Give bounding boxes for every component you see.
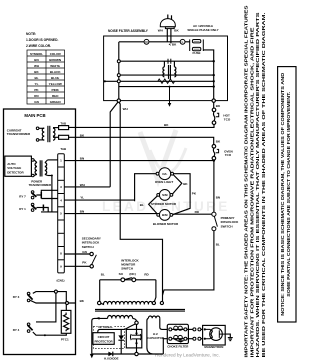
node L4 right (213, 80, 215, 82)
wire PT top to pin1 (48, 159, 58, 161)
magnetron tube (210, 328, 223, 341)
connector CN1 strip (58, 154, 65, 273)
svg-text:H.V.DIODE: H.V.DIODE (104, 356, 119, 360)
ground rail (92, 353, 164, 355)
svg-text:PTC1: PTC1 (61, 337, 69, 341)
wire rail up to choke bottom (163, 339, 167, 354)
wire fuse-side drop to transformer (119, 102, 163, 301)
svg-text:RY 7: RY 7 (19, 194, 26, 198)
node cap bottom (135, 342, 137, 344)
svg-text:SOME PARTIAL CONNECTIONS ARE S: SOME PARTIAL CONNECTIONS ARE SUBJECT TO … (286, 92, 291, 297)
main pcb box (4, 109, 76, 355)
svg-text:BLOWER MOTOR: BLOWER MOTOR (153, 222, 179, 226)
wire OVEN TCO to node (213, 159, 215, 162)
svg-text:DETECTOR: DETECTOR (7, 170, 24, 174)
svg-text:RED: RED (52, 94, 59, 98)
node pin1 bus junction (213, 159, 215, 161)
wire filament left down (147, 318, 153, 354)
blower motor B/M (157, 210, 173, 221)
optional dashed box (93, 327, 124, 349)
svg-text:SO: SO (119, 272, 124, 276)
fuse (190, 39, 204, 51)
svg-text:BE USED FOR THE CRITICAL COMPO: BE USED FOR THE CRITICAL COMPONENTS IN T… (261, 13, 266, 358)
secondary interlock switch (90, 252, 97, 268)
svg-text:BN: BN (216, 196, 220, 200)
circuit protector box (93, 333, 114, 345)
wire monitor left drop (99, 280, 101, 302)
pin numbers (60, 159, 62, 269)
wire monitor right drop (155, 280, 156, 301)
svg-text:YL: YL (35, 82, 39, 86)
svg-text:COLOR: COLOR (50, 52, 62, 56)
svg-text:NOISE FILTER ASSEMBLY: NOISE FILTER ASSEMBLY (108, 29, 149, 33)
node junction RY3 bottom (66, 302, 69, 305)
svg-text:WH: WH (80, 183, 85, 187)
wire PT bottom to bus (48, 175, 52, 177)
wire SM-BM left bracket (149, 196, 158, 214)
power plug (160, 15, 175, 44)
wire OL-SM right bracket (173, 175, 182, 194)
wire core ground stub with arrow (169, 87, 171, 104)
wire optional top rail (98, 329, 125, 332)
wire bus down to pin5 stub (51, 176, 53, 212)
svg-text:GN: GN (82, 250, 87, 254)
wire O/L right to bus (173, 174, 190, 215)
svg-text:SWITCH: SWITCH (82, 245, 94, 249)
wire L5 (119, 86, 214, 88)
auto voltage detector box (5, 156, 32, 176)
svg-text:TCO: TCO (225, 153, 232, 157)
terminal junctions on left vertical (117, 60, 120, 63)
PT terminals (32, 159, 35, 162)
thermostat HOT TCO (212, 108, 219, 124)
chassis ground arrow (90, 354, 94, 358)
oven light O/L (156, 168, 173, 180)
inductor bumps (158, 79, 175, 83)
svg-text:BL: BL (140, 203, 144, 207)
hv transformer core (95, 308, 185, 310)
current transformer CT (39, 126, 59, 142)
svg-text:TCO: TCO (224, 117, 231, 121)
note text (26, 32, 59, 48)
wire cap vertical (136, 325, 138, 336)
safety note vertical text (244, 5, 266, 357)
filament winding (148, 316, 159, 318)
wire pin5 line BN (64, 213, 157, 215)
node L3 right (213, 74, 215, 76)
node L4 left edge (104, 80, 106, 82)
wire RY3 to RY4 (36, 293, 56, 322)
wire fuse output (203, 50, 213, 61)
thermostat OVEN TCO (212, 145, 219, 161)
svg-text:WH: WH (123, 107, 128, 111)
svg-text:CHOKE FILTER: CHOKE FILTER (167, 344, 189, 348)
hv capacitor box (126, 329, 142, 348)
svg-text:BL: BL (216, 242, 220, 246)
magnetron terminals (204, 328, 206, 330)
svg-text:B/M: B/M (162, 213, 168, 217)
wire L4 with inductor (105, 80, 214, 82)
wire L3 (119, 74, 214, 76)
svg-text:WH: WH (34, 64, 39, 68)
bus right vertical to interlock (213, 161, 215, 213)
hv primary feed terminal (160, 301, 163, 304)
svg-text:FUSE: FUSE (192, 51, 200, 55)
svg-text:IMPORTANT SAFETY NOTE: THE SHA: IMPORTANT SAFETY NOTE: THE SHADED AREAS … (244, 5, 249, 357)
svg-text:BN: BN (80, 157, 84, 161)
svg-text:OPTIONAL: OPTIONAL (98, 325, 113, 329)
svg-text:SYMBOL: SYMBOL (30, 52, 43, 56)
wire pin4 line YL (64, 199, 134, 201)
TAB 1 (59, 126, 69, 130)
wire hv secondary left with arrow (92, 318, 108, 354)
svg-text:2.WIRE COLOR.: 2.WIRE COLOR. (26, 44, 51, 48)
svg-text:PINK: PINK (52, 88, 60, 92)
stirrer motor S/M (157, 190, 173, 201)
hv secondary winding (108, 315, 133, 318)
svg-text:GN: GN (34, 100, 39, 104)
svg-text:TAB: TAB (60, 122, 66, 126)
line filter transformer (163, 61, 176, 79)
hv primary coil-end terminal (152, 301, 155, 304)
CT left terminals (36, 127, 39, 130)
BK arrow annotation (169, 44, 171, 46)
svg-text:TAB: TAB (60, 147, 66, 151)
wire B/M right to interlock (173, 213, 212, 215)
terminal WH out (117, 99, 120, 102)
wire filament right to choke top (160, 318, 168, 329)
diode HV on rail (108, 352, 112, 357)
svg-text:IMPORTANT FOR PROTECTION FROM: IMPORTANT FOR PROTECTION FROM MICROWAVE … (249, 27, 254, 357)
thermistor PTC1 (61, 310, 71, 333)
svg-text:SINGLE PHASE ONLY: SINGLE PHASE ONLY (187, 28, 218, 32)
svg-text:TRANSFORMER: TRANSFORMER (7, 132, 31, 136)
wire color table (27, 50, 65, 104)
svg-text:OVEN LIGHT: OVEN LIGHT (155, 180, 174, 184)
svg-text:RY 3: RY 3 (13, 295, 20, 299)
svg-text:NOTE:: NOTE: (26, 32, 36, 36)
svg-text:SWITCH: SWITCH (121, 267, 133, 271)
watermark leadventure logo (140, 130, 186, 180)
connector pair bottom (187, 338, 193, 340)
svg-text:MAIN PCB: MAIN PCB (24, 113, 45, 118)
wire pin8 GN (64, 253, 90, 255)
svg-text:Rendered by LeadVenture, Inc.: Rendered by LeadVenture, Inc. (155, 353, 220, 358)
terminal BK out (212, 99, 215, 102)
wire HOT TCO to TAB1 (69, 125, 214, 128)
wire TAB2 to OVEN TCO (69, 137, 214, 144)
wire hv secondary right to cap (133, 318, 137, 321)
svg-text:HAZARDS. WHEN SERVICING IT IS: HAZARDS. WHEN SERVICING IT IS ESSENTIAL … (255, 12, 260, 357)
terminal L (180, 39, 185, 44)
svg-text:WH: WH (158, 29, 163, 33)
noise filter assembly box (104, 36, 228, 101)
choke filter box (167, 324, 188, 343)
svg-text:YL: YL (80, 196, 84, 200)
earth ground magnetron (225, 334, 230, 338)
power transformer T1 (34, 160, 48, 177)
wire color table text (30, 52, 62, 104)
choke coil top (172, 328, 184, 330)
svg-text:RY 1: RY 1 (19, 207, 26, 211)
wire left vertical inside filter (118, 42, 120, 101)
svg-text:O/L: O/L (162, 172, 167, 176)
node L5 right (213, 85, 215, 87)
hv transformer primary terminal left (98, 301, 101, 304)
svg-text:BN: BN (80, 210, 84, 214)
svg-text:1.DOOR IS OPENED.: 1.DOOR IS OPENED. (26, 38, 59, 42)
capacitor plates (132, 334, 142, 336)
wire pin9 PK (64, 265, 90, 267)
diode D1 vertical (120, 329, 122, 335)
svg-text:BLACK: BLACK (50, 70, 61, 74)
svg-text:SWITCH: SWITCH (221, 224, 233, 228)
svg-text:NOTICE: SINCE THIS IS BASIC SC: NOTICE: SINCE THIS IS BASIC SCHEMATIC DI… (280, 73, 285, 316)
svg-text:RY 4: RY 4 (13, 328, 20, 332)
svg-text:GREEN: GREEN (50, 100, 61, 104)
wire interlock down (163, 231, 214, 296)
connector pair top (187, 328, 193, 330)
svg-text:BN: BN (34, 58, 38, 62)
TAB 2 (59, 135, 69, 139)
magnetron box (203, 325, 226, 345)
wire L2 with capacitor (119, 60, 214, 62)
hv winding output terminal (135, 321, 138, 324)
node cap top (135, 332, 137, 334)
interlock monitor switch (100, 279, 156, 281)
node junction RY3 top (54, 290, 57, 293)
wire O/L left to BL vertical (135, 174, 157, 202)
choke coil bottom (172, 338, 184, 340)
svg-text:YELLOW: YELLOW (49, 82, 62, 86)
svg-text:L: L (182, 40, 184, 44)
wire pin1 line (64, 160, 214, 162)
svg-text:BL: BL (34, 76, 38, 80)
wire swoosh to diode rail (125, 324, 136, 329)
terminal N (144, 39, 149, 44)
capacitor C1 bars (167, 59, 169, 64)
svg-text:N: N (145, 40, 147, 44)
svg-text:STIRRER MOTOR: STIRRER MOTOR (151, 202, 177, 206)
svg-text:BLUE: BLUE (51, 76, 59, 80)
svg-text:S/M: S/M (162, 193, 168, 197)
node RY4 wire (44, 334, 46, 336)
svg-text:CAPACITOR: CAPACITOR (147, 336, 165, 340)
rail terminal (135, 352, 138, 355)
notice box (278, 67, 296, 322)
wire right vertical inside filter (213, 61, 215, 100)
svg-text:PROTECTOR: PROTECTOR (94, 339, 113, 343)
wire WH drop (110, 102, 118, 187)
svg-text:MAGNETRON: MAGNETRON (204, 345, 223, 349)
svg-text:BROWN: BROWN (49, 58, 61, 62)
hv transformer primary coil (100, 301, 152, 304)
node fuse junction (213, 60, 215, 62)
svg-text:(CN1): (CN1) (56, 278, 64, 282)
primary interlock switch (212, 212, 218, 231)
svg-text:WHITE: WHITE (50, 64, 60, 68)
svg-text:TRANSFORMER: TRANSFORMER (29, 183, 52, 187)
svg-text:(NC): (NC) (129, 272, 135, 276)
wire BK drop (213, 102, 215, 108)
svg-text:BL: BL (101, 273, 105, 277)
wire L1 top (119, 41, 190, 43)
wire pin3 line WH (64, 186, 110, 188)
